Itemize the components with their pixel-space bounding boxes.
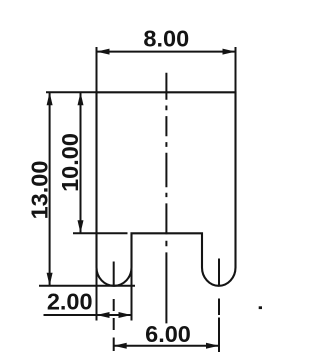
dimension 8.00 extension line right (235, 47, 237, 92)
dimension 6.00 arrow right (206, 343, 219, 349)
svg-text:13.00: 13.00 (27, 161, 53, 220)
dimension 2.00 line with tail (44, 314, 132, 316)
dimension 8.00 line (97, 51, 236, 53)
right leg centerline (6.00 right extension) (218, 259, 220, 353)
svg-text:10.00: 10.00 (57, 133, 83, 192)
svg-text:8.00: 8.00 (143, 26, 189, 52)
dimension 6.00 arrow left (114, 343, 127, 349)
dimension 6.00 line (114, 345, 219, 347)
dimension 10.00 bottom extension line (body bottom level) (73, 232, 128, 234)
dimension 2.00 extension line right (continues leg right edge) (131, 234, 133, 321)
svg-text:6.00: 6.00 (145, 321, 191, 347)
dimension 13.00 arrow top (47, 92, 53, 105)
dimension 13.00 bottom extension line (leg bottom level) (39, 285, 135, 287)
top extension line for 13.00 and 10.00 (46, 91, 97, 93)
dimension 8.00 extension line left (96, 47, 98, 92)
dimension 13.00 arrow bottom (47, 273, 53, 286)
dimension 10.00 line (80, 92, 82, 233)
main vertical centerline (dash-dot) (165, 73, 167, 324)
svg-text:2.00: 2.00 (47, 289, 93, 315)
dimension 2.00 arrow right (119, 312, 132, 318)
stray tick at right edge (259, 306, 262, 309)
dimension 2.00 extension line left (continues leg left edge) (96, 266, 98, 321)
dimension 10.00 arrow top (78, 92, 84, 105)
part outline (body with two round-bottom legs) (97, 92, 236, 285)
dimension 2.00 arrow left (97, 312, 110, 318)
dimension 10.00 arrow bottom (78, 220, 84, 233)
left leg centerline (6.00 left extension) (113, 262, 115, 352)
dimension 8.00 arrow right (223, 49, 236, 55)
dimension 13.00 line (49, 92, 51, 285)
dimension 8.00 arrow left (97, 49, 110, 55)
